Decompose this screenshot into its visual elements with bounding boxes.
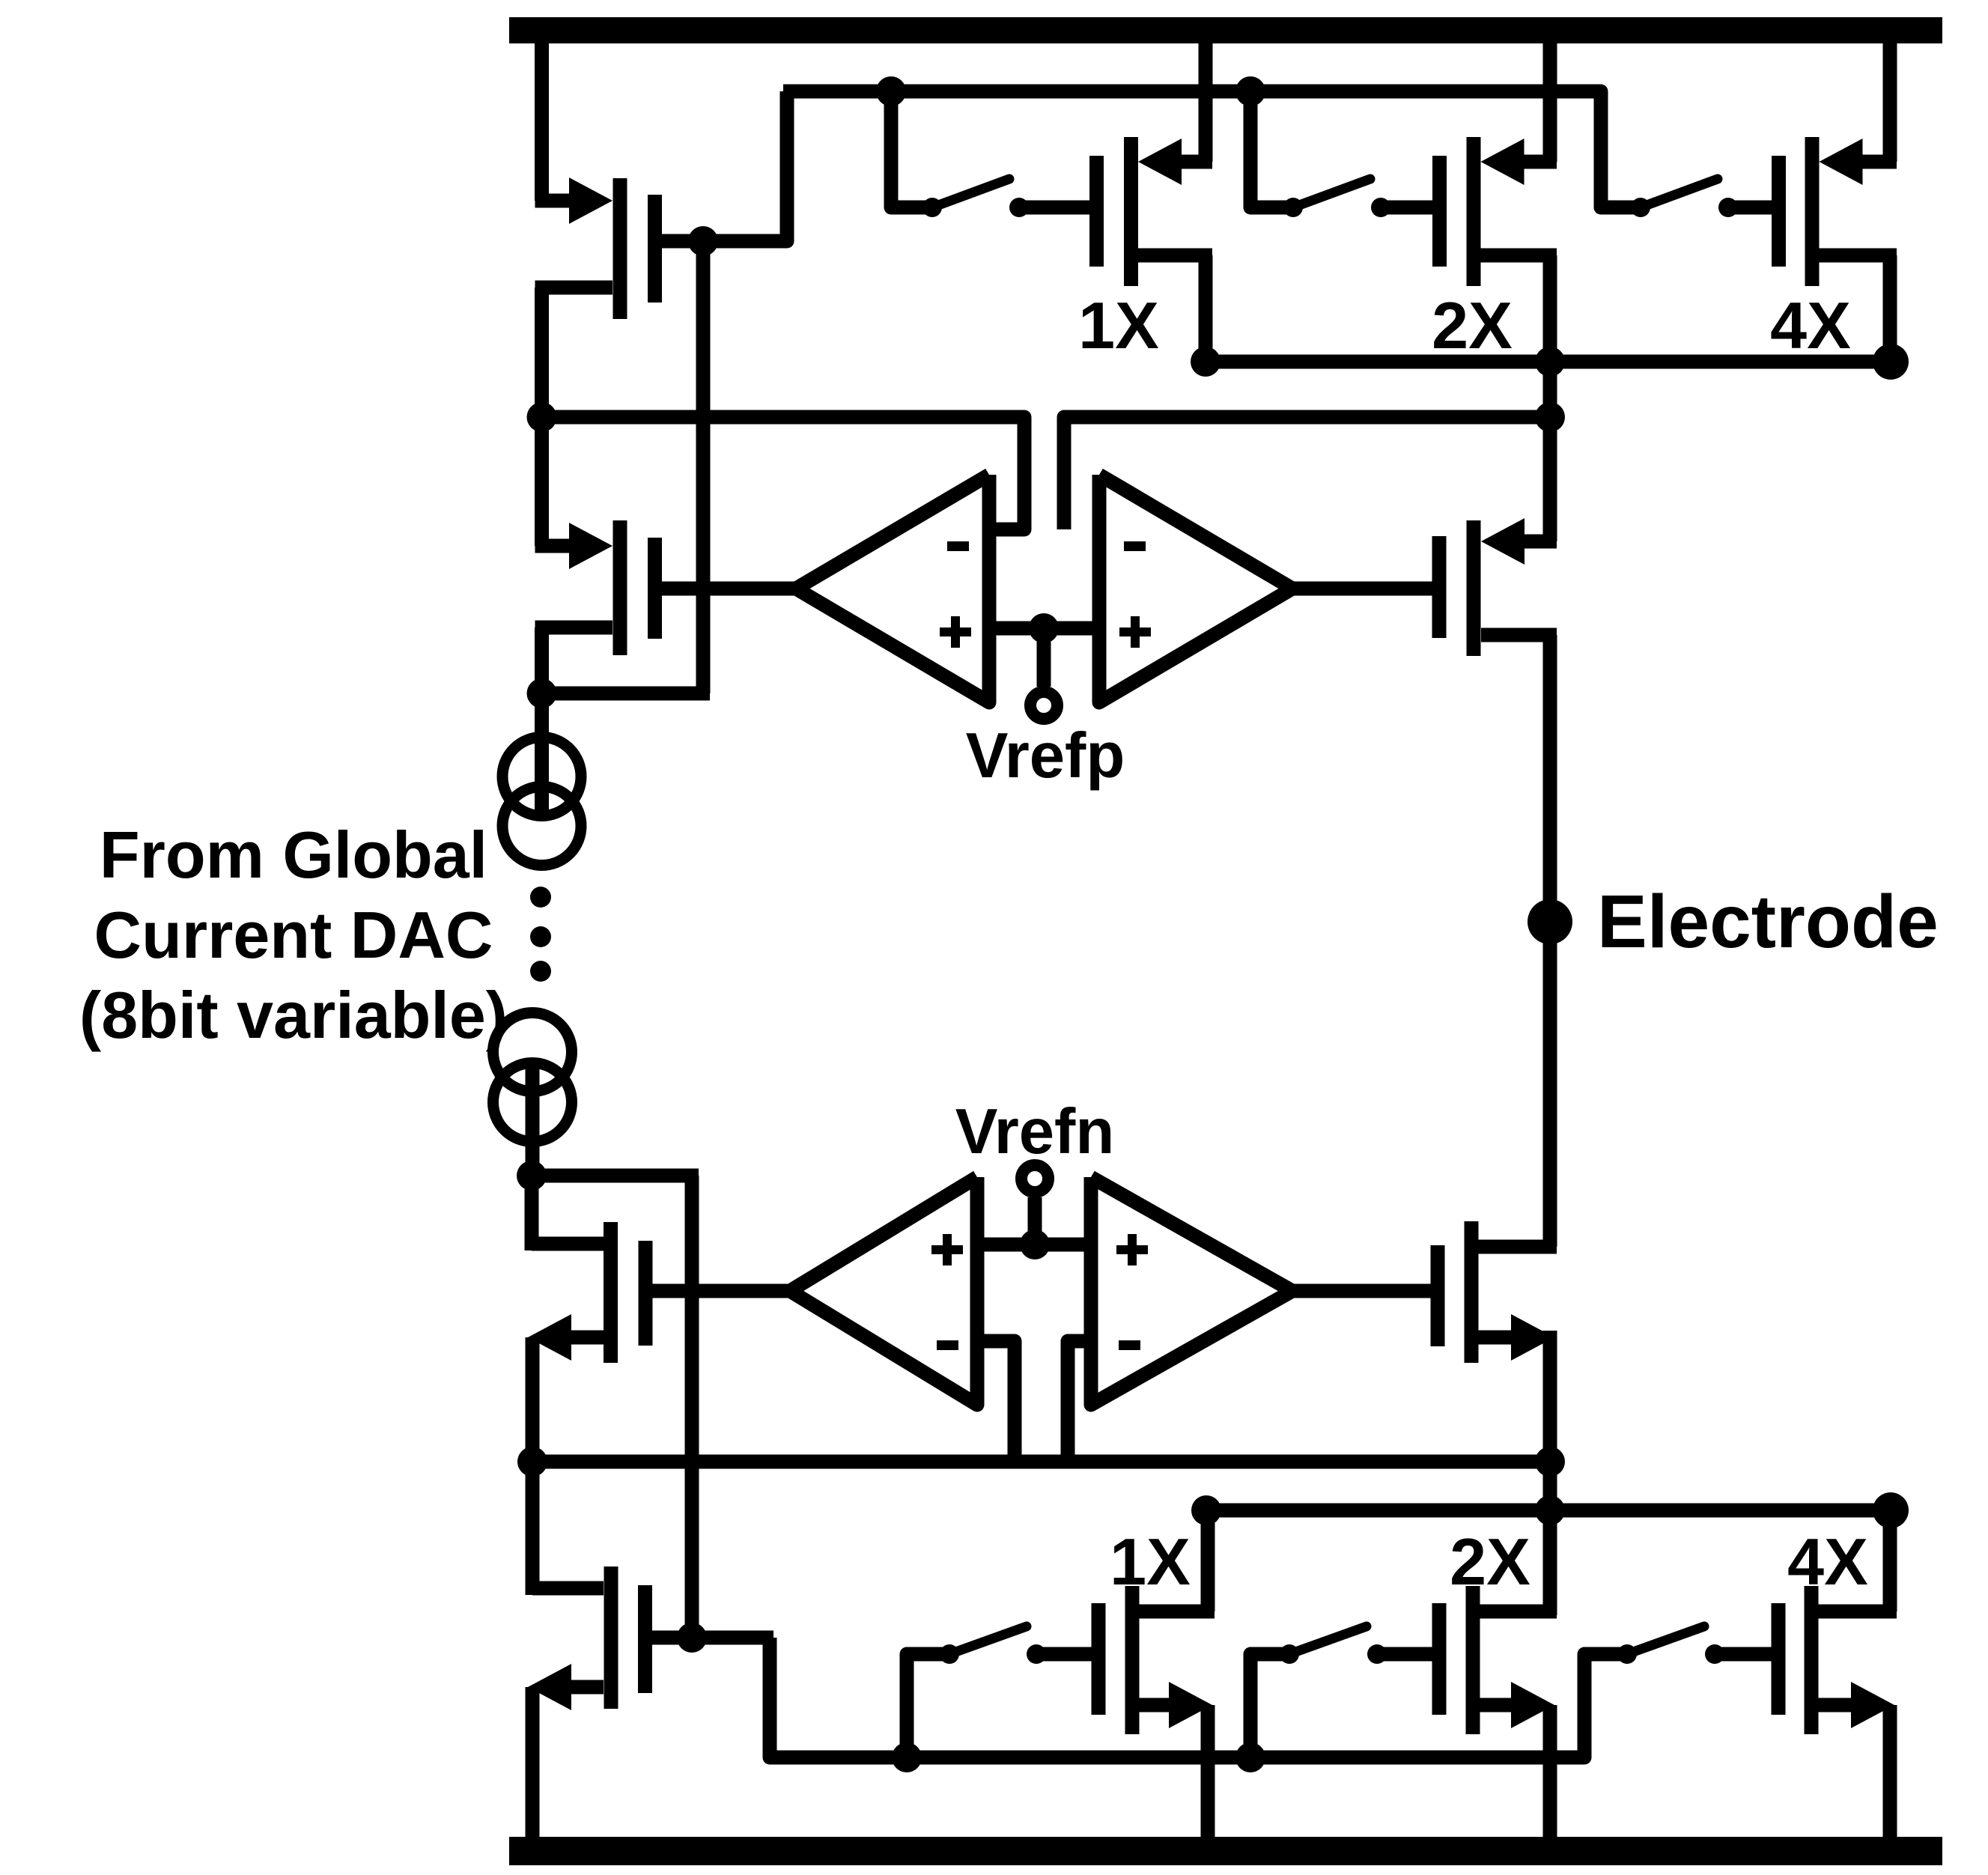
switch S6 (4X gate, bottom) <box>1617 1626 1772 1664</box>
switch S1 (1X gate, top) <box>891 91 1089 217</box>
svg-text:Electrode: Electrode <box>1597 880 1939 964</box>
node Vrefn junction <box>1020 1230 1050 1259</box>
wire Vrefp- sense left (to A1 inverting input) <box>542 417 1025 529</box>
node left stack sense tap <box>527 402 557 432</box>
PMOS 2X (top) <box>1440 42 1557 362</box>
bottom sense rail (inverting inputs) <box>532 1455 1550 1469</box>
node top cascode sense tap <box>1535 402 1565 432</box>
bottom mirror input rail <box>1206 1504 1891 1518</box>
PMOS M1 (diode-connected mirror input, top-left) <box>535 177 655 319</box>
node 1X drain on rail <box>1191 347 1221 377</box>
svg-text:4X: 4X <box>1787 1525 1868 1599</box>
node 1X drain (bottom rail end) <box>1191 1495 1221 1525</box>
svg-text:Vrefn: Vrefn <box>955 1096 1115 1167</box>
label Vrefp <box>966 720 1125 791</box>
wire rail to cascode node <box>1543 362 1557 541</box>
node 2X drain on bottom rail <box>1535 1495 1565 1525</box>
svg-text:From Global: From Global <box>100 818 487 892</box>
current source I2 (from global DAC) <box>493 1013 572 1176</box>
wire M1 drain to M2 source <box>535 288 549 546</box>
M1 gate wire to bias line riser <box>662 91 787 241</box>
terminal Vrefp <box>1030 692 1057 719</box>
node cascode drain / DAC input (top) <box>527 678 557 708</box>
wire + inputs to Vrefn node <box>977 1238 1091 1252</box>
label 1X (bottom) <box>1110 1525 1191 1599</box>
node bias tap 1X <box>876 76 906 106</box>
svg-text:1X: 1X <box>1078 288 1159 362</box>
node bias tap 2X (bottom) <box>1235 1742 1265 1772</box>
svg-text:Current DAC: Current DAC <box>94 898 493 972</box>
NMOS M3 (cascode, bottom-left) <box>528 1176 790 1462</box>
PMOS 4X (top) <box>1779 42 1897 362</box>
label 2X (top) <box>1432 288 1513 362</box>
wire VDD to M1 source <box>535 42 549 201</box>
label 2X (bottom) <box>1450 1525 1530 1599</box>
PMOS mirror gate bias line (top) <box>783 91 1641 207</box>
PMOS M4 (output cascode, top-right) <box>1292 518 1557 929</box>
svg-text:Vrefp: Vrefp <box>966 720 1125 791</box>
op-amp A1 (top-left, output to M2 gate) <box>796 475 989 702</box>
NMOS mirror gate bias line (bottom) <box>770 1638 1627 1757</box>
label 4X (top) <box>1770 288 1851 362</box>
switch S4 (1X gate, bottom) <box>907 1626 1092 1757</box>
label 1X (top) <box>1078 288 1159 362</box>
switch S3 (4X gate, top) <box>1631 179 1772 217</box>
node DAC output (bottom) <box>517 1161 547 1191</box>
svg-text:(8bit variable): (8bit variable) <box>79 978 508 1052</box>
VDD supply rail (top) <box>509 17 1942 43</box>
svg-text:4X: 4X <box>1770 288 1851 362</box>
wire Vrefn- sense right (to A4 inverting input) <box>1068 1341 1091 1462</box>
wire M2 drain to DAC node <box>535 627 549 693</box>
switch S5 (2X gate, bottom) <box>1250 1626 1432 1757</box>
PMOS M2 (cascode, top-left) <box>535 520 797 655</box>
wire Vrefp stub <box>1037 628 1051 687</box>
node M5 gate junction <box>677 1623 707 1653</box>
node Electrode <box>1528 899 1572 944</box>
switch S2 (2X gate, top) <box>1250 91 1432 217</box>
NMOS 4X (bottom) <box>1778 1510 1897 1838</box>
wire Vrefn stub <box>1028 1197 1042 1245</box>
op-amp A3 (bottom-left, output to M3 gate) <box>790 1177 977 1405</box>
svg-text:1X: 1X <box>1110 1525 1191 1599</box>
label Vrefn <box>955 1096 1115 1167</box>
node 4X drain / bottom rail end <box>1873 1492 1909 1528</box>
wire DAC node to M5 gate riser <box>532 1176 699 1638</box>
NMOS M5 (diode-connected mirror, bottom-left) <box>528 1462 770 1838</box>
node Vrefp junction <box>1029 613 1059 643</box>
node bias tap 2X <box>1235 76 1265 106</box>
node 4X drain / rail end <box>1873 344 1909 380</box>
current source I1 (from global DAC) <box>502 693 581 866</box>
svg-text:2X: 2X <box>1432 288 1513 362</box>
PMOS 1X (top) <box>1097 42 1213 362</box>
svg-text:2X: 2X <box>1450 1525 1530 1599</box>
node bottom-right rail A <box>1535 1447 1565 1477</box>
wire electrode branch <box>1543 922 1557 1247</box>
ellipsis dots (variable sources) <box>530 887 551 982</box>
node 2X drain on rail <box>1535 347 1565 377</box>
NMOS 1X (bottom) <box>1098 1510 1215 1838</box>
NMOS 2X (bottom) <box>1439 1510 1557 1838</box>
wire Vrefn- sense left (to A3 inverting input) <box>977 1341 1015 1462</box>
VSS supply rail (bottom) <box>509 1837 1942 1865</box>
node bias tap 1X (bottom) <box>892 1742 922 1772</box>
op-amp A4 (bottom-right, output to M6 gate) <box>1091 1177 1292 1405</box>
op-amp A2 (top-right, output to M4 gate) <box>1099 475 1292 702</box>
node bottom-left rail <box>517 1447 547 1477</box>
label From Global Current DAC (8bit variable) <box>79 818 508 1052</box>
NMOS M6 (output cascode, bottom-right) <box>1292 1221 1557 1615</box>
wire Vrefp- sense right (to A2 inverting input) <box>1064 417 1550 529</box>
wire + inputs to Vrefp node <box>989 622 1099 636</box>
top mirror output rail <box>1206 355 1891 369</box>
label Electrode <box>1597 880 1939 964</box>
node M1 gate junction <box>688 226 718 256</box>
label 4X (bottom) <box>1787 1525 1868 1599</box>
wire M1 gate to cascode drain node (feedback) <box>542 241 711 693</box>
terminal Vrefn <box>1021 1165 1048 1192</box>
